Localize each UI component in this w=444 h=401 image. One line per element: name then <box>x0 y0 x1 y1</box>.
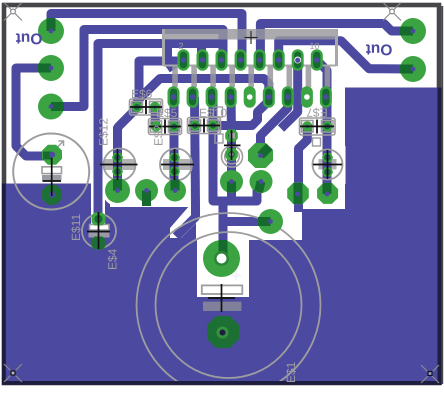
big pad 270 <box>258 209 283 234</box>
connector row2 pin4 pad <box>225 86 237 108</box>
corner hole top right <box>383 3 401 21</box>
capacitor E$1 outer circle <box>137 213 321 397</box>
label E$2 <box>152 124 166 146</box>
E$5 pads <box>151 121 179 131</box>
LED4 aux rect <box>313 138 321 146</box>
resistor E$6 label <box>131 87 153 101</box>
connector row2 pin9 pad <box>320 86 332 108</box>
LED1 E$12 circle <box>104 149 136 181</box>
svg-text:Out: Out <box>366 41 393 58</box>
LED2 circle <box>160 149 192 181</box>
resistor E$7 label rotated <box>306 106 328 120</box>
wire: row1pad7 down joining diagonal <box>281 60 298 129</box>
wire: E$3 bottom pad to big pad <box>227 154 236 182</box>
E$10 pads <box>190 120 218 130</box>
LED1 pads <box>112 153 123 176</box>
resistor E$6 line and cross <box>130 100 162 114</box>
connector row2 pin3 pad <box>206 86 218 108</box>
connector row2 pin1 pad <box>168 86 180 108</box>
wire: Out bottom <box>279 41 413 69</box>
capacitor E$1 origin cross <box>208 284 235 312</box>
wire: pad B to cap pad D <box>16 68 51 156</box>
connector row2 pin2 pad <box>187 86 199 108</box>
connector row1 pin5 pad <box>254 49 266 70</box>
pour clearance white shapes <box>91 146 346 297</box>
LED2 bar <box>163 159 193 170</box>
wire: net B row2pad1 row1pad2 E$11 <box>98 44 223 217</box>
E$3 aux rects <box>214 107 224 143</box>
LED2 cross <box>161 149 194 180</box>
label E$4 <box>106 248 120 270</box>
pad Out top <box>400 18 426 44</box>
connector row1 pin1 pad <box>177 49 189 70</box>
capacitor E$11 circle outline <box>82 214 116 248</box>
wire: row1pad8 diag to row2pad9 to E$7 LED4 big pad <box>317 60 327 194</box>
big pad mid gnd <box>135 179 158 203</box>
LED4 cross <box>313 150 342 179</box>
wire: row2pad2 V1 into pour <box>176 97 196 237</box>
corner hole top left <box>4 3 22 21</box>
connector row2 pin7 pad <box>282 86 294 108</box>
pad D cap top <box>42 145 62 165</box>
wire: row2pad4 through E$3 to big pad <box>227 97 237 182</box>
resistor E$5 outline <box>149 119 182 135</box>
big pad LED2 gnd <box>164 180 186 202</box>
big pad 260 diag <box>248 143 273 168</box>
ground pour bottom <box>4 88 439 383</box>
capacitor E$1 plate marks <box>202 285 243 311</box>
capacitor E$4 plate marks <box>42 167 62 181</box>
E$6 pads <box>132 102 160 112</box>
capacitor E$4 circle outline <box>13 134 89 210</box>
capacitor E$4 origin cross <box>43 158 62 196</box>
label Out right rotated <box>366 41 393 58</box>
E$11 bottom pad <box>92 237 106 250</box>
connector pin label 10 <box>309 41 319 51</box>
capacitor E$1 inner circle <box>156 232 302 378</box>
svg-text:E$7: E$7 <box>306 106 328 120</box>
connector pin label 2 <box>178 41 183 51</box>
label E$11 <box>69 214 83 241</box>
E$3 pads <box>225 129 238 160</box>
capacitor E$11 origin cross <box>87 212 110 249</box>
label E$12 <box>97 118 111 146</box>
connector row1 pin2 pad <box>197 49 209 70</box>
connector row1 pin4 pad <box>235 49 247 70</box>
connector row2 pin6 pad <box>263 86 275 108</box>
resistor E$5 line and cross <box>149 120 181 134</box>
connector row1 pin3 pad <box>216 49 228 70</box>
svg-text:E$4: E$4 <box>106 248 120 270</box>
pad Out bottom <box>400 56 426 82</box>
svg-text:E$12: E$12 <box>97 118 111 146</box>
resistor E$7 line and cross <box>300 120 334 134</box>
LED2 pads <box>169 153 180 176</box>
LED1 cross <box>100 149 138 180</box>
pad E cap bottom on pour <box>42 185 62 205</box>
big pad E$7 gnd <box>287 183 309 205</box>
connector row2 pin8 pad <box>301 86 313 108</box>
pad B <box>38 55 64 81</box>
wire: row2pad7 to pad at 260 <box>261 97 288 156</box>
svg-text:E$6: E$6 <box>131 87 153 101</box>
svg-text:E$5: E$5 <box>156 106 178 120</box>
wire: y126 E$10 right pad to row2pad6 <box>214 101 269 126</box>
resistor E$10 outline <box>188 118 221 134</box>
capacitor E$1 plus mark <box>231 271 241 281</box>
corner hole bottom right <box>421 365 439 383</box>
capacitor E$11 plate marks <box>89 225 110 238</box>
cap E$1 top pad <box>203 240 240 277</box>
label E$1 <box>284 361 298 383</box>
wire: E$6 left pad to y78 bus to row2pad6 <box>137 79 269 106</box>
resistor E$10 line and cross <box>188 119 220 133</box>
LED4 circle <box>313 150 343 180</box>
E$3 gray square on top pad <box>229 133 235 139</box>
resistor E$5 label <box>156 106 178 120</box>
connector row1 pin8 pad <box>311 49 323 70</box>
resistor E$10 label <box>199 106 227 120</box>
svg-text:E$10: E$10 <box>199 106 227 120</box>
wire: E$6 right pad to E$5 left pad <box>151 108 161 125</box>
corner hole bottom left <box>4 364 22 382</box>
capacitor E$4 plus arrow <box>55 141 64 150</box>
big pad E$3 <box>220 170 243 193</box>
wire: big pad 146 stub into pour <box>142 192 151 206</box>
E$3 cross <box>224 130 241 160</box>
connector row1 pin6 pad <box>273 49 285 70</box>
LED4 bar <box>319 159 337 170</box>
big pad LED4 gnd <box>317 183 338 204</box>
wire: Out top <box>260 24 413 59</box>
label Out left rotated <box>16 30 43 47</box>
connector pin bars <box>172 66 330 87</box>
wire: pad C to connector pin3 (net A) <box>51 30 223 107</box>
connector silkscreen band <box>162 29 338 66</box>
E$11 top pad <box>92 213 106 226</box>
svg-text:E$2: E$2 <box>152 124 166 146</box>
resistor E$6 outline <box>130 99 163 115</box>
connector row2 pin5 pad <box>244 86 256 108</box>
LED4 pads <box>322 153 333 177</box>
wire: row2pad1 through E$5 right pad LED2 to pad <box>170 97 179 192</box>
pad C <box>38 94 64 120</box>
wire: row2pad3 V2 to big cap net <box>213 97 270 252</box>
cap E$1 bottom pad <box>207 316 239 348</box>
E$3 circles <box>222 146 243 167</box>
svg-text:Out: Out <box>16 30 43 47</box>
pad A <box>38 18 64 44</box>
E$7 pads <box>302 121 332 131</box>
svg-text:E$11: E$11 <box>69 214 83 241</box>
connector row1 pin7 pad <box>292 49 304 70</box>
wire: row1pad1 to E$6 left pad <box>139 61 183 101</box>
resistor E$7 outline <box>300 118 336 135</box>
wire: pad A to connector pin4 <box>51 14 242 59</box>
svg-text:E$1: E$1 <box>284 361 298 383</box>
wire: E$7 left pad to big pad <box>299 128 308 212</box>
big pad LED1 gnd <box>105 178 130 203</box>
LED1 bar <box>104 159 135 170</box>
wire: E$6 left pad down to LED1 column <box>118 107 138 192</box>
connector origin cross <box>245 31 258 44</box>
big pad 261 <box>250 170 273 193</box>
